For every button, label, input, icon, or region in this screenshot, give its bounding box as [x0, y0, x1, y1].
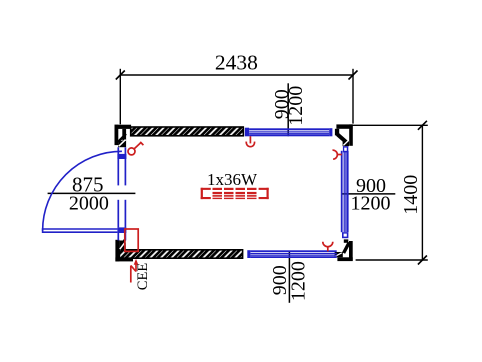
- door hinge block bottom: [117, 227, 126, 233]
- corner post bottom-left: [115, 239, 133, 262]
- door swing arc: [43, 151, 122, 230]
- dimension 875/2000 door: [48, 173, 136, 215]
- dimension 2438 top: [116, 69, 358, 125]
- svg-text:2000: 2000: [69, 193, 109, 215]
- svg-text:1400: 1400: [400, 175, 422, 215]
- door leaf: [43, 228, 118, 233]
- corner post bottom-right: [335, 239, 353, 261]
- corner post top-left: [115, 125, 132, 148]
- dimension 1400 right: [352, 121, 428, 265]
- switch S1: [128, 142, 143, 155]
- svg-text:1200: 1200: [288, 261, 310, 301]
- dimension 900/1200 top (window): [271, 83, 307, 136]
- luminaire symbol: [201, 188, 269, 199]
- door jamb upper: [118, 147, 125, 185]
- feed arrow N: [131, 264, 136, 283]
- svg-text:CEE: CEE: [135, 263, 151, 291]
- window right: [341, 146, 349, 238]
- door jamb lower: [118, 200, 125, 228]
- door jamb below hinge: [118, 233, 125, 240]
- window bottom: [247, 250, 336, 258]
- svg-text:1x36W: 1x36W: [207, 170, 258, 189]
- svg-text:1200: 1200: [285, 86, 307, 126]
- dimension 900/1200 bottom (window): [269, 252, 310, 303]
- socket top-middle: [246, 136, 254, 147]
- dimension 900/1200 right (window): [342, 175, 395, 215]
- CEE socket box: [125, 229, 138, 251]
- socket bottom-right: [323, 242, 333, 252]
- bottom wall hatched: [119, 250, 242, 258]
- top wall hatched: [131, 127, 244, 136]
- door hinge block top: [117, 154, 126, 159]
- svg-text:1200: 1200: [351, 193, 391, 215]
- svg-text:2438: 2438: [215, 50, 258, 74]
- socket right-top: [333, 150, 342, 159]
- corner post top-right: [335, 124, 353, 146]
- window top: [245, 128, 333, 137]
